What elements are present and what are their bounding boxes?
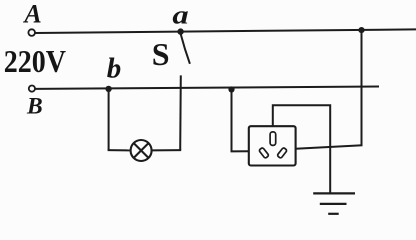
- node a: [177, 28, 183, 34]
- socket X1 body: [249, 126, 296, 165]
- wire lamp branch left: [108, 149, 131, 151]
- svg-text:B: B: [26, 94, 43, 120]
- ground symbol: [313, 193, 355, 213]
- svg-text:220V: 220V: [4, 44, 67, 79]
- wire socket branch down: [231, 90, 233, 152]
- wire socket branch right: [231, 150, 249, 152]
- socket right slot: [277, 147, 287, 158]
- wire earth lead: [273, 105, 330, 193]
- node b: [105, 86, 111, 92]
- terminal B: [29, 86, 35, 92]
- wire A: [35, 29, 416, 33]
- node d on wire A: [358, 27, 364, 33]
- terminal A: [28, 29, 35, 36]
- wire lamp branch right: [152, 149, 182, 151]
- wire socket right to vertical: [296, 145, 363, 148]
- svg-text:a: a: [172, 2, 188, 30]
- wire lamp branch down: [108, 89, 110, 150]
- svg-text:S: S: [152, 36, 170, 72]
- svg-text:A: A: [22, 0, 41, 28]
- wire B: [35, 87, 379, 89]
- svg-text:b: b: [107, 53, 122, 85]
- wire right vertical: [361, 30, 363, 145]
- wire switch lower terminal: [179, 75, 182, 150]
- junction node socket branch: [228, 86, 234, 92]
- socket earth slot: [270, 132, 276, 146]
- socket left slot: [259, 147, 269, 158]
- lamp EL: [131, 140, 152, 161]
- switch S blade: [181, 34, 190, 63]
